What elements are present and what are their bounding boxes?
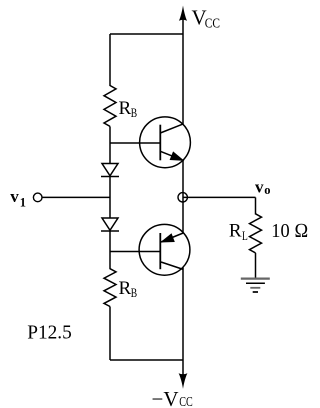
wire RL to ground xyxy=(255,253,257,279)
wire base Q2 xyxy=(110,251,160,253)
input terminal v1 xyxy=(33,193,42,202)
svg-text:−V: −V xyxy=(152,387,179,408)
vo label xyxy=(255,177,271,196)
svg-text:B: B xyxy=(131,105,138,120)
v1 label xyxy=(10,187,26,209)
Vcc supply arrow xyxy=(179,6,187,125)
svg-text:10 Ω: 10 Ω xyxy=(271,220,308,242)
transistor Q2 (PNP bottom) xyxy=(139,224,190,275)
ground xyxy=(241,279,270,292)
output node circle xyxy=(178,193,187,202)
svg-text:1: 1 xyxy=(20,195,26,209)
wire left lower vertical xyxy=(109,307,111,361)
wire rail Q2 collector to bottom xyxy=(182,268,184,378)
svg-text:P12.5: P12.5 xyxy=(27,322,72,344)
wire rail Q1 emitter to node xyxy=(182,160,184,233)
wire left between D2 and RB bottom xyxy=(109,231,111,269)
wire left between diodes xyxy=(109,177,111,219)
svg-text:o: o xyxy=(264,183,270,197)
transistor Q1 (NPN top) xyxy=(140,117,191,168)
RB bottom label xyxy=(119,278,138,300)
svg-text:L: L xyxy=(242,228,248,243)
wire input horizontal xyxy=(42,196,110,198)
resistor RB bottom xyxy=(104,269,116,307)
diode D2 xyxy=(101,218,119,231)
svg-text:v: v xyxy=(10,187,19,206)
wire top horizontal xyxy=(110,33,183,35)
wire bottom horizontal xyxy=(110,359,183,361)
wire base Q1 xyxy=(110,142,160,144)
wire left upper vertical xyxy=(109,34,111,86)
wire left between RB and diode D1 xyxy=(109,126,111,164)
svg-text:CC: CC xyxy=(179,395,193,408)
-Vcc label xyxy=(152,387,193,408)
svg-text:R: R xyxy=(229,221,242,242)
RB top label xyxy=(119,98,138,120)
Vcc label xyxy=(192,6,221,32)
resistor RL xyxy=(250,214,262,253)
svg-text:R: R xyxy=(119,98,132,119)
RL label xyxy=(229,221,248,243)
resistor RB top xyxy=(104,86,116,127)
svg-text:v: v xyxy=(255,177,264,196)
wire down to RL xyxy=(255,197,257,214)
svg-text:CC: CC xyxy=(205,17,220,32)
wire output horizontal xyxy=(183,196,256,198)
svg-text:R: R xyxy=(119,278,132,299)
diode D1 xyxy=(101,164,119,177)
-Vcc supply arrow xyxy=(179,373,188,389)
svg-text:B: B xyxy=(131,285,138,300)
